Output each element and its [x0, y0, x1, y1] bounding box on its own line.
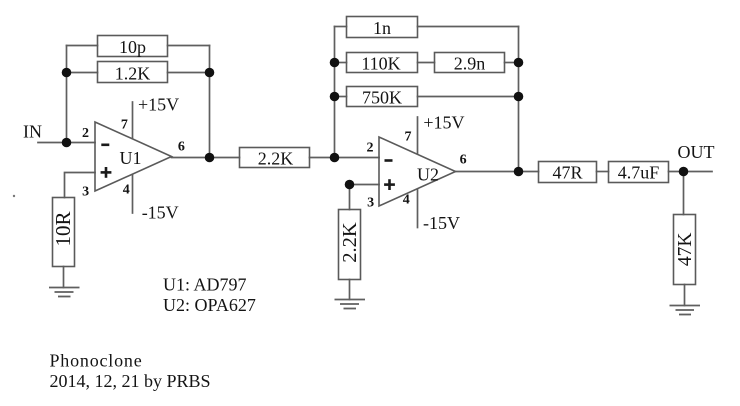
wire U1 output feedback riser: [209, 46, 211, 158]
svg-text:3: 3: [82, 185, 89, 200]
wire node-B vertical riser: [334, 27, 336, 158]
resistor R6 47R: [539, 162, 597, 183]
wire R2 right lead: [168, 72, 210, 74]
svg-text:2.2K: 2.2K: [258, 149, 294, 169]
svg-text:+15V: +15V: [423, 112, 464, 132]
svg-text:IN: IN: [23, 122, 42, 142]
U1 non-inverting input plus sign: [101, 167, 112, 178]
svg-text:U2: U2: [417, 165, 439, 185]
wire U1 output to R3: [172, 157, 240, 159]
junction node IN: [62, 138, 72, 148]
wire U2 pin7 supply: [417, 117, 419, 154]
wire U2 pin3 lead: [350, 185, 380, 210]
junction U2 pin3: [345, 180, 355, 190]
wire U1 pin7 supply: [132, 102, 134, 139]
wire 47K to ground: [684, 285, 686, 306]
wire R5 left lead: [335, 96, 347, 98]
junction R2-left: [62, 68, 72, 78]
stray mark: [13, 195, 15, 197]
wire OUT node down to 47K: [683, 172, 685, 215]
svg-text:750K: 750K: [362, 88, 402, 108]
junction node OUT: [679, 167, 689, 177]
junction U2 pin2: [330, 153, 340, 163]
svg-text:-15V: -15V: [142, 202, 179, 222]
resistor R3 2.2K: [240, 148, 310, 168]
svg-text:7: 7: [121, 117, 128, 132]
svg-text:2: 2: [367, 141, 374, 156]
wire C3 right lead: [505, 62, 519, 64]
svg-text:110K: 110K: [361, 54, 400, 74]
resistor R4 110K: [347, 53, 418, 73]
wire U2 output to R6: [456, 171, 539, 173]
wire 10R to ground: [63, 267, 65, 288]
U1 inverting input minus sign: [101, 144, 109, 147]
svg-text:+15V: +15V: [138, 95, 179, 115]
svg-text:2: 2: [82, 126, 89, 141]
ground GND2 under 2.2K: [335, 300, 366, 309]
wire node-A vertical riser: [66, 46, 68, 143]
svg-text:47K: 47K: [675, 233, 696, 267]
resistor R1 10R: [53, 198, 75, 267]
svg-text:OUT: OUT: [678, 142, 715, 162]
wire R6 to C4: [597, 171, 609, 173]
wire U1 pin3 lead: [65, 173, 96, 198]
svg-text:2.9n: 2.9n: [454, 54, 486, 74]
op-amp U1: [95, 122, 172, 191]
op-amp U2: [379, 137, 456, 206]
junction U1 output: [205, 153, 215, 163]
resistor R5 750K: [347, 87, 418, 107]
wire R4 to C3: [418, 62, 435, 64]
wire U1 pin4 supply: [132, 175, 134, 214]
capacitor C1 10p: [98, 36, 168, 57]
capacitor C3 2.9n: [435, 53, 505, 73]
svg-text:4.7uF: 4.7uF: [618, 163, 660, 183]
wire C4 to OUT: [669, 171, 713, 173]
wire R2 left lead: [67, 72, 98, 74]
svg-text:Phonoclone: Phonoclone: [50, 351, 143, 371]
ground GND3 under 47K: [670, 306, 701, 315]
wire R3 to U2 pin2: [310, 157, 380, 159]
junction R5-left: [330, 92, 340, 102]
svg-text:U2: OPA627: U2: OPA627: [163, 295, 256, 315]
svg-text:1n: 1n: [373, 18, 391, 38]
wire C1 left lead: [67, 45, 98, 47]
svg-text:6: 6: [460, 153, 467, 168]
svg-text:1.2K: 1.2K: [115, 64, 151, 84]
svg-text:47R: 47R: [552, 163, 582, 183]
svg-text:U1: AD797: U1: AD797: [163, 275, 247, 295]
resistor R7 2.2K shunt: [339, 210, 361, 280]
wire C1 right lead: [168, 45, 210, 47]
svg-text:6: 6: [178, 139, 185, 154]
U2 non-inverting input plus sign: [384, 179, 395, 190]
resistor R8 47K: [674, 215, 696, 285]
svg-text:10R: 10R: [51, 211, 75, 246]
svg-text:4: 4: [123, 183, 130, 198]
svg-text:4: 4: [403, 193, 410, 208]
capacitor C4 4.7uF: [609, 162, 669, 183]
svg-text:7: 7: [405, 130, 412, 145]
wire U2 pin4 supply: [417, 190, 419, 228]
ground GND1 under 10R: [49, 288, 80, 297]
svg-text:2.2K: 2.2K: [339, 222, 361, 263]
capacitor C2 1n: [347, 17, 418, 38]
junction R4-left: [330, 58, 340, 68]
resistor R2 1.2K: [98, 62, 168, 83]
wire IN to U1 pin2: [38, 142, 95, 144]
wire R5 right lead: [418, 96, 519, 98]
svg-text:3: 3: [367, 196, 374, 211]
svg-text:U1: U1: [120, 148, 142, 168]
wire R4 left lead: [335, 62, 347, 64]
wire U2 output feedback riser: [518, 27, 520, 172]
wire C2 left lead: [335, 26, 347, 28]
junction R5-right: [514, 92, 524, 102]
junction U2 output: [514, 167, 524, 177]
wire 2.2K to ground: [349, 280, 351, 300]
U2 inverting input minus sign: [385, 159, 393, 162]
svg-text:10p: 10p: [119, 37, 146, 57]
junction C3-right: [514, 58, 524, 68]
svg-text:-15V: -15V: [423, 213, 460, 233]
svg-text:2014, 12, 21 by PRBS: 2014, 12, 21 by PRBS: [50, 371, 211, 391]
junction R2-right: [205, 68, 215, 78]
wire C2 right lead: [418, 26, 519, 28]
